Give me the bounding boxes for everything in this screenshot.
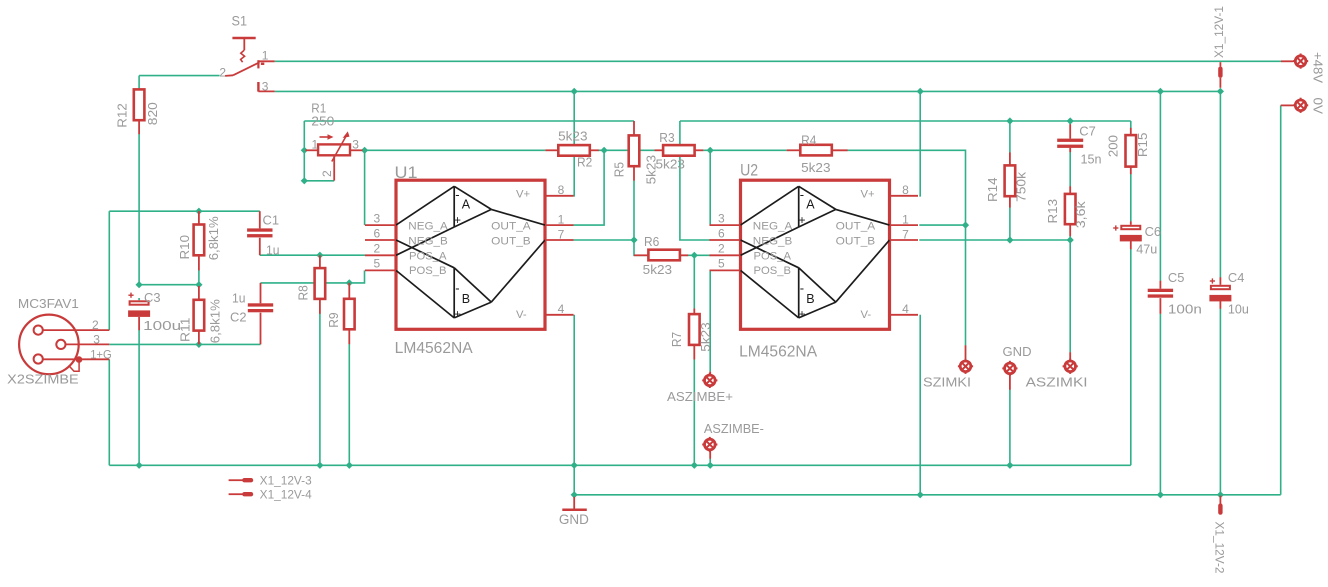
svg-text:V+: V+: [861, 188, 876, 200]
wire R14 bottom: [1009, 208, 1011, 241]
svg-text:C2: C2: [230, 310, 247, 325]
svg-text:R5: R5: [612, 162, 626, 177]
resistor R4: [787, 133, 848, 175]
resistor R15: [1107, 128, 1151, 174]
wire C4 to ground: [1219, 309, 1221, 495]
resistor R13: [1046, 186, 1088, 236]
svg-text:+: +: [799, 307, 806, 321]
wire XLR 1+G to rail: [108, 359, 110, 465]
svg-text:R15: R15: [1136, 133, 1150, 158]
pin X1_12V-3: [229, 476, 312, 488]
resistor R3: [655, 131, 704, 172]
svg-text:R4: R4: [801, 133, 816, 147]
junction: [1157, 88, 1164, 95]
junction: [630, 236, 637, 243]
svg-text:1: 1: [558, 212, 565, 226]
wire V+ U1 riser: [572, 91, 575, 195]
svg-text:100n: 100n: [1168, 301, 1202, 316]
svg-text:10u: 10u: [1228, 301, 1249, 316]
pin X1_12V-2: [1212, 496, 1224, 574]
wire to R6: [634, 240, 648, 255]
wire feedback U1 row: [304, 120, 634, 122]
pad ASZIMKI: [1026, 352, 1088, 389]
wire C3 node to R10 node: [139, 284, 199, 286]
wire R1 pin2 link: [304, 180, 334, 182]
svg-text:3: 3: [93, 333, 100, 347]
svg-text:-: -: [455, 281, 459, 296]
svg-text:C7: C7: [1079, 124, 1096, 139]
svg-text:SZIMKI: SZIMKI: [923, 376, 971, 390]
pad +48V: [1281, 52, 1326, 83]
wire rail to C4: [1219, 91, 1221, 277]
junction: [601, 147, 608, 154]
wire C6 to rail: [1130, 249, 1132, 465]
svg-text:2: 2: [320, 170, 334, 177]
svg-text:+: +: [454, 307, 461, 321]
capacitor C2: [230, 283, 273, 345]
svg-text:1u: 1u: [266, 243, 280, 258]
junction: [571, 491, 578, 498]
svg-text:-: -: [455, 187, 459, 202]
svg-text:C1: C1: [263, 213, 280, 228]
resistor R6: [634, 235, 688, 277]
wire +48V top: [275, 60, 1281, 62]
capacitor C3: [128, 290, 181, 333]
svg-text:V-: V-: [516, 309, 527, 321]
svg-text:15n: 15n: [1081, 152, 1102, 167]
svg-text:1: 1: [902, 212, 909, 226]
capacitor C7: [1057, 124, 1101, 167]
resistor R10: [178, 211, 221, 270]
wire R7 to rail: [693, 359, 695, 465]
junction: [195, 341, 202, 348]
svg-text:U1: U1: [395, 164, 418, 182]
svg-text:1: 1: [312, 137, 319, 151]
pad 0V: [1281, 98, 1326, 115]
junction: [917, 491, 924, 498]
wire upper ground rail: [109, 464, 1131, 466]
svg-text:1+G: 1+G: [90, 347, 112, 361]
svg-text:OUT_B: OUT_B: [491, 235, 531, 247]
svg-text:OUT_B: OUT_B: [836, 235, 876, 247]
svg-text:6: 6: [374, 227, 381, 241]
wire C5 to ground: [1159, 314, 1161, 495]
svg-text:ASZIMBE-: ASZIMBE-: [704, 422, 764, 436]
junction: [301, 147, 308, 154]
pad GND: [1002, 344, 1031, 390]
svg-text:V+: V+: [516, 188, 531, 200]
svg-text:R14: R14: [986, 177, 1000, 202]
svg-text:5k23: 5k23: [699, 322, 713, 351]
svg-text:6: 6: [718, 227, 725, 241]
junction: [707, 462, 714, 469]
wire lower ground rail: [574, 494, 1280, 496]
wire R10 bottom: [198, 270, 200, 285]
wire R3 to R4: [703, 149, 787, 151]
wire net3 XLR pin3 to C2: [109, 343, 260, 345]
junction: [195, 208, 202, 215]
junction: [136, 462, 143, 469]
svg-text:8: 8: [558, 183, 565, 197]
svg-text:C3: C3: [144, 290, 161, 305]
wire R4 to OUT_A U2: [847, 150, 965, 225]
wire R9 to rail: [348, 344, 350, 465]
svg-text:-: -: [800, 281, 804, 296]
svg-text:2: 2: [92, 318, 99, 332]
svg-text:NEG_A: NEG_A: [753, 220, 793, 232]
ground GND: [559, 497, 589, 527]
svg-text:GND: GND: [559, 512, 589, 527]
svg-text:5k23: 5k23: [656, 158, 685, 172]
junction: [691, 462, 698, 469]
svg-text:5k23: 5k23: [643, 263, 672, 277]
svg-text:R8: R8: [296, 285, 310, 300]
wire V+ U2 riser: [918, 91, 921, 195]
svg-text:X2SZIMBE: X2SZIMBE: [7, 372, 79, 386]
svg-text:0V: 0V: [1311, 98, 1326, 115]
junction: [691, 252, 698, 259]
svg-text:8: 8: [902, 183, 909, 197]
svg-text:POS_B: POS_B: [409, 265, 447, 277]
svg-text:OUT_A: OUT_A: [836, 220, 876, 232]
junction: [707, 147, 714, 154]
svg-text:+: +: [799, 213, 806, 227]
svg-text:100u: 100u: [143, 318, 181, 333]
junction: [195, 281, 202, 288]
wire R13 bottom: [1069, 236, 1071, 240]
capacitor C1: [247, 211, 279, 257]
svg-text:B: B: [462, 292, 470, 306]
wire C3 top stub: [138, 298, 140, 300]
svg-text:X1_12V-4: X1_12V-4: [260, 490, 313, 502]
wire R1 left riser: [303, 121, 305, 181]
svg-text:X1_12V-3: X1_12V-3: [260, 476, 312, 488]
wire POS_B U2 to ASZIMBE+: [709, 270, 711, 371]
svg-text:S1: S1: [232, 14, 248, 29]
op-amp U1: [365, 164, 574, 357]
svg-text:NEG_B: NEG_B: [408, 235, 448, 247]
svg-text:200: 200: [1107, 135, 1121, 157]
svg-text:POS_B: POS_B: [754, 265, 792, 277]
svg-text:GND: GND: [1003, 344, 1032, 359]
junction: [1067, 117, 1074, 124]
wire S1 pin2 to R12: [139, 75, 220, 77]
resistor R2: [545, 130, 599, 170]
junction: [316, 252, 323, 259]
svg-text:MC3FAV1: MC3FAV1: [18, 297, 79, 311]
resistor R9: [327, 283, 355, 344]
svg-text:820: 820: [146, 102, 160, 125]
resistor R8: [296, 255, 325, 314]
wire XLR pin2 riser: [108, 211, 110, 330]
svg-text:ASZIMKI: ASZIMKI: [1026, 376, 1088, 390]
svg-text:C6: C6: [1145, 224, 1162, 239]
svg-text:U2: U2: [740, 162, 758, 180]
svg-text:ASZIMBE+: ASZIMBE+: [667, 390, 733, 404]
potentiometer R1: [306, 101, 363, 181]
capacitor C5: [1148, 270, 1202, 316]
svg-text:V-: V-: [861, 309, 872, 321]
wire XLR pin2 to C1: [109, 210, 259, 212]
svg-text:1u: 1u: [232, 291, 246, 306]
wire V+ rail: [275, 90, 1221, 92]
wire OUT_A U1 riser: [573, 150, 604, 225]
junction: [361, 147, 368, 154]
wire R5 bottom: [633, 181, 635, 240]
svg-text:R7: R7: [670, 332, 684, 347]
resistor R7: [670, 309, 713, 360]
resistor R14: [986, 152, 1028, 207]
junction: [346, 462, 353, 469]
wire R15 to C6: [1130, 174, 1132, 222]
svg-text:A: A: [462, 198, 471, 212]
svg-text:R6: R6: [644, 235, 659, 249]
svg-text:5: 5: [374, 257, 381, 271]
wire R2 to R3: [599, 149, 656, 151]
wire C1 to POS_A U1: [260, 254, 365, 256]
op-amp U2: [710, 162, 919, 361]
capacitor C6: [1113, 221, 1161, 256]
junction: [1067, 236, 1074, 243]
wire R6 to POS_A U2: [680, 254, 710, 256]
svg-text:R3: R3: [659, 131, 674, 145]
junction: [917, 88, 924, 95]
wire V- U2 to ground: [919, 315, 921, 495]
svg-text:B: B: [806, 292, 814, 306]
pad ASZIMBE-: [702, 422, 764, 459]
junction: [316, 462, 323, 469]
wire R12 to C3 node: [138, 134, 140, 285]
svg-text:POS_A: POS_A: [754, 250, 792, 262]
svg-text:POS_A: POS_A: [409, 250, 447, 262]
wire R8 to rail: [319, 314, 321, 466]
svg-text:3: 3: [262, 79, 269, 93]
svg-text:7: 7: [902, 227, 909, 241]
wire GND pad to rail: [1009, 390, 1011, 466]
svg-text:R9: R9: [327, 312, 341, 327]
wire R1 pin3 to R2: [365, 149, 546, 151]
wire OUT_B U2: [919, 239, 1070, 241]
wire ASZIMBE- to rail: [709, 459, 711, 466]
svg-text:5k23: 5k23: [558, 130, 587, 144]
svg-text:1: 1: [262, 48, 269, 62]
wire C7 top: [1069, 121, 1071, 125]
pin X1_12V-4: [229, 490, 313, 502]
wire NEG_A U2 riser: [709, 150, 711, 225]
wire OUT_B U1: [573, 239, 634, 241]
svg-text:4: 4: [902, 302, 909, 316]
wire OUT_B to ASZIMKI: [1069, 240, 1071, 352]
svg-text:-: -: [800, 187, 804, 202]
svg-text:R2: R2: [577, 155, 592, 169]
svg-text:3: 3: [352, 137, 359, 151]
switch S1: [219, 14, 274, 94]
pad SZIMKI: [923, 345, 973, 389]
svg-text:+48V: +48V: [1311, 52, 1326, 83]
wire R14 top: [1009, 121, 1011, 153]
wire rail to C5: [1159, 91, 1161, 281]
svg-text:+: +: [454, 213, 461, 227]
svg-text:X1_12V-2: X1_12V-2: [1212, 522, 1224, 574]
junction: [1006, 462, 1013, 469]
wire R15 top: [1130, 121, 1132, 128]
svg-text:R10: R10: [178, 235, 192, 260]
svg-text:5k23: 5k23: [801, 161, 830, 175]
svg-text:7: 7: [558, 227, 565, 241]
wire NEG_B U2 riser: [680, 121, 710, 240]
wire feedback U2 row: [680, 120, 1131, 122]
wire OUT_A to SZIMKI: [965, 225, 967, 345]
junction: [136, 281, 143, 288]
svg-text:2: 2: [374, 242, 381, 256]
wire 0V riser: [1280, 105, 1282, 494]
wire R1 pin3 to NEG_A U1: [364, 150, 366, 225]
svg-text:R12: R12: [116, 103, 130, 128]
pad ASZIMBE+: [667, 372, 733, 404]
resistor R5: [612, 121, 658, 184]
wire C7 to R13: [1069, 152, 1071, 187]
svg-text:LM4562NA: LM4562NA: [395, 340, 474, 357]
svg-text:5: 5: [718, 257, 725, 271]
svg-text:R13: R13: [1046, 199, 1060, 224]
wire C3 bottom to rail: [138, 330, 140, 465]
junction: [1217, 491, 1224, 498]
junction: [1217, 88, 1224, 95]
resistor R11: [179, 286, 223, 344]
svg-text:3: 3: [374, 212, 381, 226]
junction: [1006, 236, 1013, 243]
svg-text:NEG_A: NEG_A: [408, 220, 448, 232]
junction: [571, 88, 578, 95]
wire R6 to R7: [693, 255, 695, 308]
svg-text:NEG_B: NEG_B: [753, 235, 793, 247]
svg-text:6,8k1%: 6,8k1%: [207, 216, 221, 260]
wire OUT_A U2: [919, 224, 965, 226]
svg-text:47u: 47u: [1136, 242, 1157, 257]
svg-text:6,8k1%: 6,8k1%: [209, 299, 223, 343]
svg-text:OUT_A: OUT_A: [491, 220, 531, 232]
svg-text:3,6k: 3,6k: [1074, 200, 1088, 228]
svg-text:C5: C5: [1168, 270, 1185, 285]
capacitor C4: [1209, 270, 1249, 316]
svg-text:750k: 750k: [1015, 171, 1029, 202]
junction: [301, 177, 308, 184]
junction: [1006, 117, 1013, 124]
wire C2 to POS_B U1: [261, 270, 365, 283]
junction: [962, 222, 969, 229]
junction: [1157, 491, 1164, 498]
svg-text:C4: C4: [1228, 270, 1245, 285]
wire V- U1 to ground: [573, 315, 575, 495]
svg-text:4: 4: [558, 302, 565, 316]
pin X1_12V-1: [1214, 6, 1226, 88]
svg-text:250: 250: [311, 113, 334, 128]
svg-text:2: 2: [219, 66, 226, 80]
wire R12 top: [138, 76, 140, 90]
connector X2SZIMBE MC3FAV1: [7, 297, 112, 386]
svg-text:A: A: [806, 198, 815, 212]
junction: [346, 279, 353, 286]
svg-text:X1_12V-1: X1_12V-1: [1214, 6, 1226, 58]
resistor R12: [116, 89, 161, 134]
svg-text:3: 3: [718, 212, 725, 226]
svg-text:2: 2: [718, 242, 725, 256]
junction: [571, 462, 578, 469]
svg-text:LM4562NA: LM4562NA: [739, 344, 818, 361]
